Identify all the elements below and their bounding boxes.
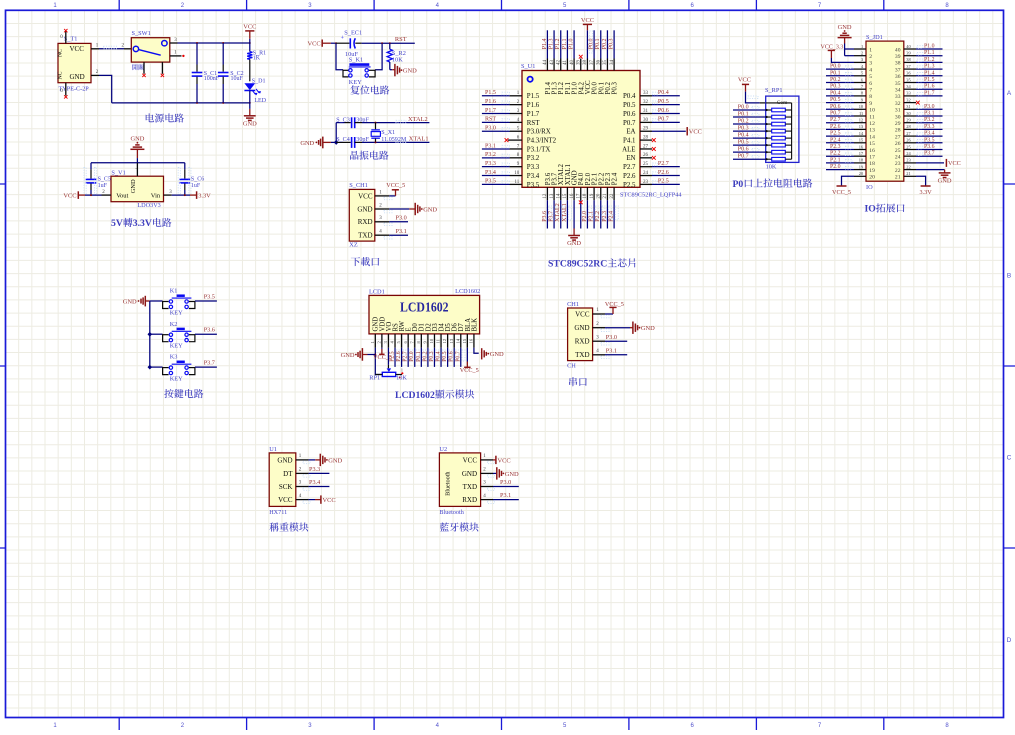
wire U1 pin 41 net P1.1: [566, 30, 568, 58]
JD1 pin 37 right: [904, 68, 916, 70]
no-connect X on U1 pin 27: [652, 147, 656, 151]
svg-text:3.3V: 3.3V: [198, 193, 211, 200]
JD1 pin 15 left: [854, 142, 866, 144]
wire JD1 pin 34 net P1.6: [916, 88, 943, 90]
ground flag CH1: [414, 203, 416, 215]
svg-text:P3.2: P3.2: [527, 155, 540, 162]
svg-text:VCC_5: VCC_5: [460, 367, 479, 374]
svg-text:S_D1: S_D1: [252, 79, 266, 85]
svg-text:P3.0: P3.0: [500, 479, 511, 486]
svg-text:SCK: SCK: [279, 483, 293, 491]
no-connect X on T1 bottom pin: [64, 95, 67, 98]
SW1 value label 开关: [132, 64, 144, 70]
svg-text:P3.1: P3.1: [924, 111, 935, 117]
svg-text:2: 2: [861, 51, 863, 56]
JD1 pin 35 right: [904, 82, 916, 84]
SW1 bottom stub left: [143, 62, 145, 74]
svg-text:P3.6: P3.6: [204, 327, 215, 334]
power flag VCC HX711: [320, 495, 322, 503]
svg-text:P4.1: P4.1: [623, 138, 636, 145]
svg-text:EA: EA: [626, 129, 635, 136]
JD1 pin 24 right: [904, 155, 916, 157]
wire LCD pin 7 net P0.0: [414, 348, 416, 367]
svg-text:LCD1602: LCD1602: [455, 288, 480, 295]
svg-text:P3.7: P3.7: [548, 211, 554, 222]
title 电源电路: [146, 113, 184, 122]
svg-text:KEY: KEY: [170, 310, 183, 317]
RP1 resistor element 7: [766, 151, 772, 153]
svg-text:12: 12: [869, 121, 875, 127]
wire EC1 to RST node: [362, 42, 415, 44]
ground symbol power circuit: [249, 103, 251, 109]
svg-text:1: 1: [861, 44, 863, 49]
svg-text:ALE: ALE: [622, 146, 635, 153]
svg-text:GND: GND: [641, 325, 655, 332]
svg-text:P1.4: P1.4: [924, 70, 935, 76]
wire U1 VCC pin to power: [586, 30, 588, 58]
wire XTAL1: [362, 141, 429, 143]
svg-text:XTAL2: XTAL2: [408, 116, 428, 123]
title 晶振电路: [350, 151, 389, 160]
svg-text:P3.7: P3.7: [204, 359, 215, 366]
JD1 pin 13 left: [854, 128, 866, 130]
wire U1 pin 4 net RST: [482, 121, 510, 123]
svg-text:GND: GND: [505, 471, 519, 478]
capacitor C1 100nF: [196, 43, 198, 65]
wire LCD pin 6 net P2.7: [407, 348, 409, 367]
svg-text:P3.5: P3.5: [527, 182, 540, 189]
wire JD1 pin 11 net P0.7: [826, 115, 854, 117]
wire K3 to net P3.7: [195, 366, 217, 368]
svg-text:3.3V: 3.3V: [919, 189, 932, 196]
svg-text:GND: GND: [403, 68, 417, 75]
title 按键电路: [164, 389, 203, 398]
svg-text:LCD1602: LCD1602: [400, 299, 449, 314]
RP1 resistor element 8: [766, 158, 772, 160]
RP1 resistor element 3: [766, 123, 772, 125]
wire U1 pin 44 net P1.4: [546, 30, 548, 58]
svg-text:P0.0: P0.0: [409, 351, 415, 362]
svg-text:P2.6: P2.6: [830, 124, 841, 130]
wire U1 pin 25 net P2.7: [652, 166, 680, 168]
svg-text:P2.6: P2.6: [658, 170, 669, 176]
header JD1 40-pin IO: [866, 41, 904, 181]
wire JD1 pin 33 net P1.7: [916, 95, 943, 97]
wire U1 pin 34 net P0.3: [613, 30, 615, 58]
svg-text:32: 32: [895, 101, 901, 107]
svg-text:LCD1: LCD1: [369, 289, 385, 296]
no-connect X on U1 pin 6: [505, 138, 509, 142]
svg-text:3.3V: 3.3V: [133, 218, 152, 229]
svg-text:IO: IO: [866, 184, 873, 191]
wire LCD pin 11 net P0.4: [440, 348, 442, 367]
T1 pin 0 top: [65, 31, 67, 43]
svg-text:P2.5: P2.5: [390, 351, 396, 362]
svg-text:P3.0/RX: P3.0/RX: [527, 129, 551, 136]
svg-text:37: 37: [895, 67, 901, 73]
svg-text:RXD: RXD: [358, 218, 373, 226]
resistor R1 1K: [249, 43, 251, 52]
svg-text:GND: GND: [130, 136, 144, 143]
wire HX711 DT P3.3: [309, 472, 330, 474]
svg-text:P2.7: P2.7: [623, 164, 636, 171]
svg-text:NC: NC: [58, 71, 64, 79]
SW1 pin 3 stub: [170, 42, 178, 44]
wire JD1 pin 7 net P0.3: [826, 88, 854, 90]
wire net P0.1 to RP1: [733, 116, 766, 118]
wire left branch to key: [336, 43, 343, 69]
svg-text:33: 33: [895, 94, 901, 100]
svg-text:A: A: [1007, 90, 1012, 97]
svg-text:1K: 1K: [253, 56, 261, 62]
wire U1 pin 40 net P1.0: [573, 30, 575, 58]
JD1 pin 38 right: [904, 61, 916, 63]
svg-text:22: 22: [906, 164, 910, 169]
wire LCD pin 9 net P0.2: [427, 348, 429, 367]
wire CH1 RXD P3.0: [389, 221, 408, 223]
wire HX711 GND: [309, 459, 316, 461]
svg-text:32: 32: [906, 97, 910, 102]
wire U1 pin 15 net XTAL1: [566, 200, 568, 228]
T1 VCC pin stub: [91, 48, 99, 50]
wire JD1 pin 30 net P3.1: [916, 115, 943, 117]
header CH1 serial: [568, 308, 593, 361]
regulator V1 LDO3V3: [111, 176, 164, 202]
svg-text:34: 34: [895, 88, 901, 94]
JD1 pin 6 left: [854, 82, 866, 84]
svg-text:P3.3: P3.3: [527, 164, 540, 171]
svg-text:P1.2: P1.2: [555, 38, 561, 49]
ground flag serial: [632, 322, 634, 334]
power flag VCC left: [77, 191, 79, 199]
svg-text:TYPE-C-2P: TYPE-C-2P: [59, 86, 90, 93]
svg-text:17: 17: [869, 155, 875, 161]
header CH1 download: [349, 189, 375, 241]
svg-text:P0.3: P0.3: [738, 125, 749, 131]
RP1 common bus: [766, 102, 792, 104]
wire JD1 pin 25 net P3.6: [916, 149, 943, 151]
JD1 pin 29 right: [904, 122, 916, 124]
wire JD1 pin 20 to VCC_5: [842, 176, 855, 186]
wire LCD VDD to VCC_5: [381, 348, 383, 349]
svg-text:KEY: KEY: [170, 343, 183, 350]
wire JD1 pin 39 net P1.1: [916, 55, 943, 57]
svg-text:S_C4: S_C4: [336, 137, 350, 143]
wire to C4: [336, 141, 344, 143]
wire LCD BLK to GND: [474, 348, 479, 353]
no-connect X on U1 pin 26: [652, 156, 656, 160]
svg-text:RST: RST: [485, 117, 496, 123]
svg-text:10: 10: [429, 338, 434, 343]
wire U1 pin 13 net P3.7: [553, 200, 555, 228]
wire CH1 GND: [389, 208, 409, 210]
power flag 3.3V JD1: [921, 185, 931, 187]
svg-text:P0.4: P0.4: [738, 132, 749, 138]
svg-text:3: 3: [869, 61, 872, 67]
wire HX711 VCC: [309, 499, 315, 501]
wire serial TXD P3.1: [605, 354, 627, 356]
potentiometer RP1 10K: [387, 368, 391, 372]
wire U1 pin 11 net P3.5: [482, 183, 510, 185]
RP1 resistor element 1: [766, 109, 772, 111]
wire JD1 pin 27 net P3.4: [916, 135, 943, 137]
wire JD1 pin 40 net P1.0: [916, 48, 943, 50]
wire U1 pin 8 net P3.2: [482, 157, 510, 159]
ground symbol JD1 top: [842, 32, 846, 34]
svg-text:P3.5: P3.5: [485, 179, 496, 185]
wire U1 pin 42 net P1.2: [560, 30, 562, 58]
svg-text:P1.7: P1.7: [924, 90, 935, 96]
svg-text:P3.2: P3.2: [924, 117, 935, 123]
JD1 pin 8 left: [854, 95, 866, 97]
svg-text:P3.1: P3.1: [606, 348, 617, 355]
svg-text:GND: GND: [341, 352, 355, 359]
wire VCC_3.3 to pin 3: [831, 58, 854, 62]
svg-text:GND: GND: [277, 456, 292, 464]
no-connect X on T1 top pin: [64, 29, 67, 32]
power flag VCC_5 JD1: [837, 185, 847, 187]
wire U1 pin 30 net P0.7: [652, 121, 680, 123]
svg-text:16: 16: [469, 338, 474, 343]
svg-text:GND: GND: [130, 179, 137, 193]
wire U1 pin 5 net P3.0: [482, 130, 510, 132]
svg-text:P1.7: P1.7: [485, 108, 496, 114]
svg-text:6: 6: [869, 81, 872, 87]
wire JD1 pin 5 net P0.1: [826, 75, 854, 77]
svg-text:GND: GND: [300, 140, 314, 147]
wire key gnd bus: [149, 301, 151, 367]
wire JD1 pin 26 net P3.5: [916, 142, 943, 144]
wire bottom rail GND: [112, 102, 250, 104]
svg-text:VCC: VCC: [278, 496, 293, 504]
svg-text:S_EC1: S_EC1: [344, 30, 362, 37]
crystal X1 11.0592M: [375, 123, 377, 130]
svg-text:P0.7: P0.7: [830, 111, 841, 117]
ground flag U2: [496, 467, 498, 479]
wire crystal gnd bus: [331, 141, 336, 143]
svg-text:P2.6: P2.6: [623, 173, 636, 180]
svg-text:2: 2: [869, 54, 872, 60]
wire JD1 pin 24 net P3.7: [916, 155, 943, 157]
JD1 pin 39 right: [904, 55, 916, 57]
svg-text:-: -: [135, 165, 137, 171]
svg-text:S_SW1: S_SW1: [132, 30, 151, 37]
svg-text:Bluetooth: Bluetooth: [445, 471, 452, 496]
RP1 resistor element 6: [766, 144, 772, 146]
svg-text:P2.5: P2.5: [830, 131, 841, 137]
svg-text:P3.1: P3.1: [485, 143, 496, 149]
JD1 pin 19 left: [854, 169, 866, 171]
svg-text:P1.3: P1.3: [924, 64, 935, 70]
wire U2 RXD P3.1: [493, 499, 519, 501]
svg-text:GND: GND: [838, 24, 852, 31]
svg-text:11: 11: [869, 114, 875, 120]
svg-text:P3.6: P3.6: [542, 211, 548, 222]
microcontroller U1 STC89C52RC_LQFP44: [522, 71, 640, 188]
svg-text:P0.4: P0.4: [623, 93, 636, 100]
wire U1 pin 43 net P1.3: [553, 30, 555, 58]
wire U2 TXD P3.0: [493, 486, 519, 488]
JD1 pin 23 right: [904, 162, 916, 164]
capacitor C4 30pF: [351, 137, 353, 148]
svg-text:VCC: VCC: [738, 77, 751, 84]
svg-text:VCC: VCC: [323, 497, 336, 504]
svg-text:10K: 10K: [766, 163, 777, 170]
title 串口: [569, 377, 587, 386]
wire U1 pin 20 net P2.2: [600, 200, 602, 228]
svg-text:S_RP1: S_RP1: [765, 87, 783, 94]
wire JD1 pin 14 net P2.5: [826, 135, 854, 137]
svg-text:P1.5: P1.5: [527, 93, 540, 100]
svg-text:P0.7: P0.7: [738, 154, 749, 160]
ground flag HX711: [319, 454, 321, 466]
svg-text:P2.0: P2.0: [582, 211, 588, 222]
JD1 pin 14 left: [854, 135, 866, 137]
svg-text:GND: GND: [490, 351, 504, 358]
svg-text:P0.6: P0.6: [738, 146, 749, 152]
svg-text:11: 11: [436, 338, 441, 343]
wire JD1 pin 23 to VCC: [916, 162, 944, 164]
svg-text:VCC: VCC: [575, 310, 590, 318]
svg-text:9: 9: [869, 101, 872, 107]
svg-text:P0.3: P0.3: [429, 351, 435, 362]
wire net P0.2 to RP1: [733, 123, 766, 125]
svg-text:IO: IO: [865, 204, 877, 215]
wire U1 pin 12 net P3.6: [546, 200, 548, 228]
svg-text:XTAL1: XTAL1: [409, 136, 429, 143]
JD1 pin 12 left: [854, 122, 866, 124]
svg-text:P1.6: P1.6: [485, 99, 496, 105]
wire net P0.3 to RP1: [733, 130, 766, 132]
svg-text:P2.5: P2.5: [658, 179, 669, 185]
svg-text:GND: GND: [70, 73, 85, 81]
svg-text:31: 31: [895, 108, 901, 114]
svg-text:30: 30: [895, 114, 901, 120]
wire U1 pin 22 net P2.4: [613, 200, 615, 228]
svg-text:1uF: 1uF: [98, 183, 108, 189]
frame column ticks bottom: [119, 718, 884, 731]
svg-text:K2: K2: [170, 321, 178, 328]
wire JD1 pin 15 net P2.4: [826, 142, 854, 144]
wire JD1 pin 18 net P2.1: [826, 162, 854, 164]
no-connect X on U1 pin 28: [652, 138, 656, 142]
wire JD1 pin 37 net P1.3: [916, 68, 943, 70]
wire JD1 pin 9 net P0.5: [826, 102, 854, 104]
svg-text:BLK: BLK: [471, 318, 478, 332]
svg-text:P0.6: P0.6: [830, 104, 841, 110]
svg-text:29: 29: [895, 121, 901, 127]
svg-text:P2.6: P2.6: [396, 351, 402, 362]
V1 GND pin: [136, 163, 138, 176]
wire U1 pin 17 P4.0 no-connect: [580, 200, 582, 228]
svg-text:P2.4: P2.4: [830, 137, 841, 143]
RP1 resistor element 2: [766, 116, 772, 118]
svg-text:P0.2: P0.2: [422, 351, 428, 362]
wire U1 pin 7 net P3.1: [482, 148, 510, 150]
JD1 pin 26 right: [904, 142, 916, 144]
svg-text:14: 14: [869, 134, 875, 140]
svg-text:CH1: CH1: [567, 301, 579, 308]
svg-text:S_U1: S_U1: [521, 63, 535, 70]
wire JD1 pin 38 net P1.2: [916, 61, 943, 63]
svg-text:20: 20: [869, 175, 875, 181]
wire JD1 pin 17 net P2.2: [826, 155, 854, 157]
svg-text:GND: GND: [574, 324, 589, 332]
wire U1 pin 37 net P0.0: [593, 30, 595, 58]
wire JD1 pin 13 net P2.6: [826, 128, 854, 130]
svg-text:P3.0: P3.0: [924, 104, 935, 110]
svg-text:TXD: TXD: [575, 351, 589, 359]
svg-text:S_V1: S_V1: [111, 169, 125, 176]
wire JD1 pin 28 net P3.3: [916, 128, 943, 130]
wire JD1 gnd to pins 1 2: [844, 44, 846, 56]
wire to C3: [336, 122, 344, 124]
ground symbol LDO top: [135, 144, 139, 146]
svg-text:40: 40: [895, 47, 901, 53]
svg-text:35: 35: [895, 81, 901, 87]
svg-text:S_C5: S_C5: [98, 177, 111, 183]
wire right branch to key: [375, 43, 382, 69]
svg-text:RXD: RXD: [462, 496, 477, 504]
JD1 pin 18 left: [854, 162, 866, 164]
svg-text:P0.3: P0.3: [612, 81, 619, 94]
JD1 pin 3 left: [854, 61, 866, 63]
T1 GND pin stub: [91, 74, 99, 76]
wire U1 pin 31 net P0.6: [652, 113, 680, 115]
svg-text:TXD: TXD: [358, 232, 372, 240]
JD1 pin 20 left: [854, 175, 866, 177]
svg-text:P0.1: P0.1: [416, 351, 422, 362]
JD1 pin 1 left: [854, 48, 866, 50]
wire net P0.6 to RP1: [733, 151, 766, 153]
svg-text:S_JD1: S_JD1: [866, 34, 883, 41]
JD1 pin 40 right: [904, 48, 916, 50]
wire JD1 pin 8 net P0.4: [826, 95, 854, 97]
wire U1 GND pin down: [573, 200, 575, 228]
JD1 pin 21 right: [904, 175, 916, 177]
JD1 pin 31 right: [904, 108, 916, 110]
wire LCD pin 5 net P2.6: [401, 348, 403, 367]
wire U1 pin 32 net P0.5: [652, 104, 680, 106]
svg-text:P0.0: P0.0: [588, 38, 594, 49]
svg-text:U1: U1: [269, 446, 277, 453]
svg-text:P0.0: P0.0: [830, 64, 841, 70]
svg-text:S_CH1: S_CH1: [349, 182, 368, 189]
svg-text:36: 36: [895, 74, 901, 80]
svg-text:P0.1: P0.1: [595, 38, 601, 49]
svg-text:GND: GND: [243, 120, 257, 127]
wire U1 pin 1 net P1.5: [482, 95, 510, 97]
svg-text:RST: RST: [527, 120, 540, 127]
svg-text:K1: K1: [170, 288, 178, 295]
power flag VCC top of U1: [583, 23, 592, 25]
svg-text:KEY: KEY: [170, 376, 183, 383]
JD1 pin 22 right: [904, 169, 916, 171]
svg-text:GND: GND: [328, 457, 342, 464]
svg-text:P0: P0: [733, 179, 744, 190]
svg-text:P2.7: P2.7: [403, 351, 409, 362]
wire CH1 TXD P3.1: [389, 234, 408, 236]
svg-text:31: 31: [906, 104, 910, 109]
svg-text:P3.0: P3.0: [606, 334, 617, 341]
capacitor C2 10uF: [222, 43, 224, 65]
wire top rail VCC: [178, 42, 250, 44]
wire LCD BLA to VCC_5: [466, 348, 468, 362]
svg-text:1uF: 1uF: [191, 183, 201, 189]
svg-text:GND: GND: [357, 205, 372, 213]
SW1 pin 2 stub: [124, 48, 134, 50]
pushbutton K1 reset KEY: [349, 63, 369, 66]
